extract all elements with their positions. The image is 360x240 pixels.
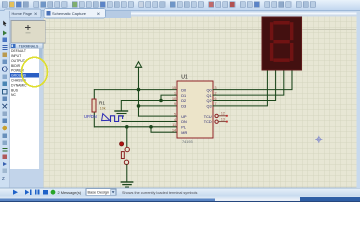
svg-text:13: 13 — [221, 118, 225, 122]
svg-text:Shows the currently loaded ter: Shows the currently loaded terminal symb… — [122, 191, 197, 195]
resistor R1 — [92, 90, 106, 127]
wire button to ground — [126, 165, 128, 182]
annotation highlight circle — [22, 57, 48, 86]
svg-text:2 Message(s): 2 Message(s) — [58, 190, 82, 195]
U1 pin numbers left — [172, 86, 176, 133]
wire UP pin from rail — [139, 115, 178, 117]
svg-text:12: 12 — [221, 112, 225, 116]
wire power rail vertical — [138, 67, 140, 116]
7seg segment E — [270, 43, 273, 61]
svg-text:TCD: TCD — [204, 120, 212, 124]
svg-text:OUTPUT: OUTPUT — [11, 59, 25, 63]
svg-text:Base Design: Base Design — [88, 191, 110, 195]
node junction rail-D3 — [137, 104, 141, 108]
TERMINALS header — [10, 43, 43, 48]
wire DN clock input — [122, 121, 177, 123]
svg-text:NC: NC — [11, 93, 16, 97]
svg-text:UP/DN: UP/DN — [84, 114, 97, 119]
svg-text:Z: Z — [2, 176, 5, 181]
preview pane — [11, 21, 45, 44]
svg-text:Home Page: Home Page — [12, 11, 33, 16]
push button SW — [120, 142, 130, 165]
power terminal VCC arrow — [135, 62, 141, 68]
svg-text:D3: D3 — [181, 105, 186, 109]
svg-text:Q0: Q0 — [207, 88, 212, 92]
svg-text:10k: 10k — [100, 107, 106, 111]
node junction rail-D0 — [137, 88, 141, 92]
schematic canvas with grid — [43, 12, 357, 188]
svg-text:✕: ✕ — [97, 11, 101, 16]
wire Q0 to display — [213, 70, 292, 90]
bottom taskbar sliver — [0, 197, 360, 203]
tab bar — [0, 9, 357, 19]
7seg segment B — [290, 22, 293, 40]
7seg segment C — [290, 43, 293, 61]
svg-text:1: 1 — [174, 91, 176, 95]
wire PL row from R1 — [95, 126, 178, 128]
svg-text:Q1: Q1 — [207, 94, 212, 98]
wire PL-MR jog vertical — [151, 127, 177, 132]
wire Q1 to display — [213, 70, 284, 96]
wire D2 horizontal — [121, 101, 177, 111]
wire D1 with jog — [161, 95, 177, 100]
IC U1 74193 body — [177, 75, 213, 144]
7-segment display body — [262, 17, 302, 70]
clock generator UP/DN — [84, 114, 123, 122]
svg-text:BUS: BUS — [11, 88, 19, 92]
7seg segment G — [274, 40, 290, 43]
U1 pin names right — [204, 88, 212, 124]
wire Q2 to display — [213, 70, 276, 101]
svg-text:DN: DN — [181, 120, 187, 124]
U1 pin names left — [181, 88, 187, 135]
node junction PL-MR jog — [149, 125, 153, 129]
ground terminal small (D2 tie-low) — [115, 111, 128, 116]
status bar — [0, 188, 360, 197]
wire button drop — [126, 127, 128, 148]
svg-text:GROUND: GROUND — [11, 74, 27, 78]
svg-text:15: 15 — [172, 86, 176, 90]
svg-text:74193: 74193 — [182, 140, 193, 144]
right window edge — [357, 11, 360, 188]
svg-text:R1: R1 — [99, 100, 105, 105]
svg-text:10: 10 — [172, 97, 176, 101]
svg-text:TERMINALS: TERMINALS — [19, 44, 39, 48]
7seg segment A — [274, 21, 290, 25]
node junction D1-D2 jog — [159, 99, 163, 103]
ground symbol main — [121, 182, 132, 187]
list box — [10, 48, 39, 169]
svg-text:PL: PL — [181, 126, 186, 130]
svg-text:D2: D2 — [181, 99, 186, 103]
svg-text:U1: U1 — [181, 75, 188, 81]
svg-text:Q3: Q3 — [207, 105, 212, 109]
svg-text:D0: D0 — [181, 88, 186, 92]
svg-text:11: 11 — [172, 123, 176, 127]
7seg segment D — [274, 58, 290, 62]
svg-text:BIDIR: BIDIR — [11, 64, 21, 68]
svg-text:DEFAULT: DEFAULT — [11, 49, 26, 53]
wire D3 horizontal — [139, 105, 178, 107]
svg-text:DYNAMIC: DYNAMIC — [11, 83, 27, 87]
svg-text:9: 9 — [174, 102, 176, 106]
left object selector panel — [10, 18, 46, 188]
svg-text:D1: D1 — [181, 94, 186, 98]
svg-text:4: 4 — [174, 118, 176, 122]
U1 pin numbers right — [215, 86, 225, 122]
svg-text:INPUT: INPUT — [11, 54, 21, 58]
wire D0 horizontal — [95, 89, 178, 91]
origin marker — [316, 136, 322, 142]
svg-text:Q2: Q2 — [207, 99, 212, 103]
svg-text:5: 5 — [174, 112, 176, 116]
svg-text:UP: UP — [181, 115, 187, 119]
node junction PL-button — [125, 125, 129, 129]
pin TCU inversion bubble — [215, 114, 228, 117]
svg-text:Schematic Capture: Schematic Capture — [52, 11, 87, 16]
wire Q3 to display — [213, 70, 267, 106]
svg-text:TCU: TCU — [204, 115, 212, 119]
7seg segment F — [270, 22, 273, 40]
svg-text:14: 14 — [172, 129, 176, 133]
svg-text:✕: ✕ — [34, 11, 38, 16]
svg-text:MR: MR — [181, 131, 187, 135]
left icon toolbar — [0, 11, 10, 188]
top toolbar — [0, 0, 360, 11]
pin TCD inversion bubble — [215, 120, 228, 123]
